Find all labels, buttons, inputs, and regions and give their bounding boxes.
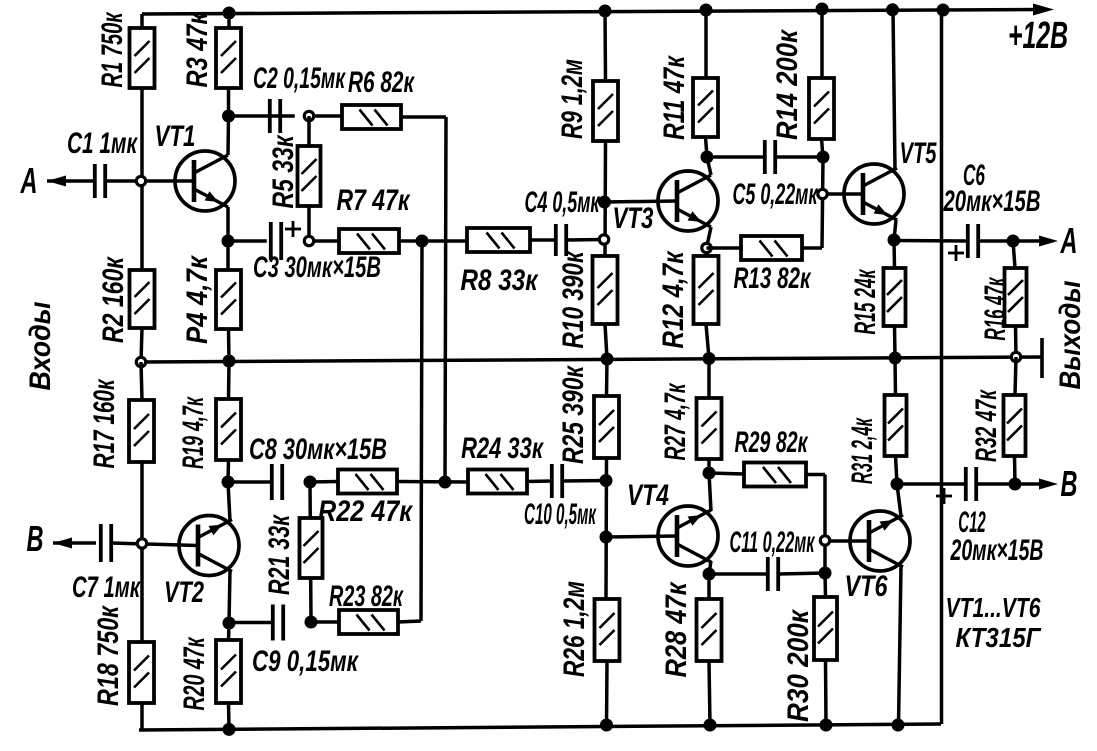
svg-text:R29 82к: R29 82к [735,426,809,459]
junction VT3 base [598,196,611,209]
wire R1 to R2 via input A node [140,88,144,270]
resistor R21 [300,518,323,578]
node C2 R5 R6 [304,111,313,120]
wire R1 top [140,14,144,28]
svg-text:R32 47к: R32 47к [970,389,1003,462]
svg-text:А: А [1060,221,1078,261]
resistor R27 [697,398,722,459]
transistor VT1 [175,151,235,211]
svg-text:C1 1мк: C1 1мк [67,127,139,160]
junction VT1 emitter [222,235,235,248]
resistor R13 [741,236,802,260]
wire R19 to emitter node [226,460,230,482]
svg-text:VT6: VT6 [845,569,889,602]
svg-text:R13 82к: R13 82к [734,262,813,295]
junction output A R16 [1007,235,1020,248]
wire VT1 emitter [226,207,230,241]
wire R2 to mid rail [141,328,142,362]
capacitor C9 [273,605,283,641]
resistor Р4 [216,270,241,329]
wire R19 top [227,361,231,399]
wire +12V top rail [142,10,1046,15]
svg-text:C7 1мк: C7 1мк [72,571,141,604]
node VT3 emitter [702,243,711,252]
junction C5 R14 base link [817,151,830,164]
wire R22 to R24 [397,480,468,484]
wire R4 to mid rail [227,329,231,361]
svg-text:+12В: +12В [1008,14,1068,57]
wire R7 to R8 [399,239,467,243]
wire R8 to C4 [530,238,556,242]
wire base VT5 [827,192,862,196]
wire C5 to R14 node [775,155,823,159]
wire R27 to emitter node [707,459,711,473]
wire base VT2 [147,544,197,546]
wire C5 node to VT5 base to R13 [822,157,823,248]
svg-text:R6 82к: R6 82к [348,66,416,99]
wire emitter to C6 [894,239,968,243]
wire R9 to R10 [603,141,607,256]
resistor R2 [130,270,155,328]
wire R9 top [603,11,607,81]
svg-text:R12 4,7к: R12 4,7к [655,250,689,348]
transistor VT5 [844,164,904,224]
resistor R7 [339,229,399,253]
node outputs common [1011,352,1020,361]
resistor R23 [339,610,398,634]
junction output B R32 [1009,478,1022,491]
arrow input A [47,176,66,187]
svg-text:В: В [26,519,43,559]
wire R23 to feedback [398,621,421,622]
arrow +12V rail end [1033,4,1054,16]
svg-text:R2 160к: R2 160к [96,256,130,343]
svg-text:А: А [20,161,38,201]
wire node to R7 [313,239,339,243]
junction R30 bottom rail [820,719,833,732]
wire R28 to bottom rail [709,661,710,725]
svg-text:C9 0,15мк: C9 0,15мк [252,644,359,678]
svg-text:20мк×15В: 20мк×15В [943,185,1041,218]
wire VT2 collector down [229,570,230,623]
wire R31 to emitter node [896,456,898,484]
junction R26 bottom rail [600,719,613,732]
wire collector node to R28 [707,574,711,599]
wire R13 to VT5 base link [802,246,822,250]
wire R26 to bottom rail [605,661,609,725]
svg-text:R27 4,7к: R27 4,7к [659,383,692,461]
resistor R6 [342,105,401,129]
wire input B [53,541,96,545]
junction VT1 collector [222,110,235,123]
svg-text:R18 750к: R18 750к [91,605,125,706]
wire R15 [892,240,896,268]
svg-text:Входы: Входы [24,301,58,390]
node mid rail left inputs common [136,357,145,366]
svg-text:R21 33к: R21 33к [261,514,296,595]
node C3 R5 R7 [304,236,313,245]
junction R22 R24 feedback [439,476,452,489]
wire collector to C9 [229,621,273,625]
svg-text:C5 0,22мк: C5 0,22мк [733,179,819,212]
svg-text:R24 33к: R24 33к [461,431,544,465]
node C4 connection [599,235,608,244]
wire R16 top [1013,241,1015,268]
wire base VT1 [146,179,193,183]
node VT5 base [818,189,827,198]
wire feedback R7 to R23 [421,241,422,621]
svg-text:R25 390к: R25 390к [556,365,590,464]
wire input A [47,179,95,183]
wire VT2 emitter up [228,482,230,521]
svg-text:R1 750к: R1 750к [96,12,129,88]
wire R3 top [227,13,231,28]
wire R17 to input B node to R18 [140,462,144,642]
node VT6 base [820,536,829,545]
wire base VT3 [605,201,677,202]
svg-text:VT3: VT3 [613,201,654,235]
svg-text:VT5: VT5 [900,137,938,170]
resistor R18 [129,642,154,703]
junction R7 R8 feedback [416,235,429,248]
wire node to R22 [310,480,338,484]
resistor R32 [1004,395,1026,456]
svg-text:R28 47к: R28 47к [659,581,692,678]
junction VT5 emitter R15 [888,234,901,247]
wire emitter to C3 [228,239,267,243]
wire collector node to R20 [227,623,231,640]
terminal bar outputs common [1040,338,1044,378]
svg-text:R23 82к: R23 82к [329,580,404,613]
resistor R20 [216,640,241,703]
svg-text:В: В [1060,464,1077,504]
node input B junction [137,539,146,548]
wire emitter to C8 [228,480,272,484]
wire R18 to bottom rail [140,703,144,730]
junction C11 R30 base link [819,567,832,580]
resistor R25 [594,396,619,458]
resistor R15 [884,268,906,326]
svg-text:C8 30мк×15В: C8 30мк×15В [249,432,387,466]
svg-text:Р4 4,7к: Р4 4,7к [180,254,213,344]
svg-text:R9 1,2м: R9 1,2м [554,59,588,139]
resistor R22 [338,470,397,494]
wire R12 to mid rail [706,324,709,359]
capacitor C8 [272,464,282,500]
capacitor C3 [271,221,301,260]
capacitor C1 [95,164,105,198]
wire bottom rail [139,724,941,730]
junction VT6 emitter R31 [891,478,904,491]
transistor VT4 [658,506,718,566]
svg-text:C10 0,5мк: C10 0,5мк [524,497,597,531]
wire R20 to bottom rail [227,703,231,729]
junction VT6 collector rail [892,719,905,732]
svg-text:VT4: VT4 [627,478,669,512]
svg-text:20мк×15В: 20мк×15В [950,534,1044,567]
wire mid rail to R17 [141,362,142,400]
svg-text:R30 200к: R30 200к [781,608,814,722]
wire VT5 collector [893,10,895,169]
wire R4 top [226,241,230,270]
resistor R9 [593,81,618,141]
svg-text:R26 1,2м: R26 1,2м [557,581,591,677]
wire R14 to C5 node [822,139,824,157]
resistor R14 [809,78,834,139]
wire collector VT3 to C5 [707,155,765,159]
transistor VT3 [658,171,718,231]
wire C12 to output B [976,482,1040,486]
junction R15 mid rail [889,352,902,365]
wire R30 top [823,573,827,597]
junction R3 top rail [223,7,236,20]
wire R25 to nodes to R26 [604,458,608,599]
wire collector VT4 to C11 [709,572,768,576]
resistor R10 [593,256,618,324]
junction R4 R19 mid rail [223,355,236,368]
resistor R16 [1005,268,1027,326]
svg-text:R5 33к: R5 33к [266,134,300,208]
wire R25 top [605,359,609,396]
junction R10 R25 mid rail [601,353,614,366]
svg-text:КТ315Г: КТ315Г [956,621,1042,653]
svg-text:Выходы: Выходы [1053,280,1086,389]
junction R14 top rail [816,3,829,16]
wire R29 to VT6 base link [806,475,825,574]
wire C1 to base node [105,179,146,183]
node input A junction [136,176,145,185]
resistor R30 [814,597,837,660]
svg-text:C11 0,22мк: C11 0,22мк [730,526,816,560]
wire C4 to VT3 base column [566,238,604,242]
wire VT3 emitter [707,227,712,248]
junction R12 R27 mid rail [703,352,716,365]
wire R12 top [704,252,708,256]
transistor VT6 [850,511,910,571]
junction R9 top rail [599,5,612,18]
svg-text:R7 47к: R7 47к [337,183,411,217]
arrow input B [53,538,72,549]
junction C8 R21 R22 [304,476,317,489]
wire collector to C2 [229,114,295,118]
wire VT5 emitter [894,220,896,240]
svg-text:R31 2,4к: R31 2,4к [846,417,879,484]
wire VT6 collector down [899,566,902,725]
svg-text:R17 160к: R17 160к [88,378,121,469]
wire R3 to collector node [227,88,231,116]
resistor R31 [885,395,907,456]
wire C6 to output A [978,239,1040,243]
junction C10 node [600,474,613,487]
wire node to R6 [313,114,342,118]
resistor R28 [697,599,722,661]
svg-text:R11 47к: R11 47к [657,55,691,140]
wire VT3 emitter to R13 [707,246,742,250]
junction VT2 collector C9 [223,617,236,630]
resistor R3 [216,28,241,88]
junction VT4 emitter R29 [703,467,716,480]
capacitor C11 [768,557,778,591]
wire VT1 collector [226,116,230,155]
junction VT4 collector C11 [703,568,716,581]
junction VT4 base [600,531,613,544]
junction R11 top rail [700,4,713,17]
svg-text:R8 33к: R8 33к [461,262,539,296]
resistor R29 [744,463,806,487]
wire R32 top [1015,357,1016,395]
wire right vertical +12V link [940,10,944,724]
capacitor C10 [552,464,562,498]
wire base VT6 [830,539,868,543]
wire R14 top [820,9,824,78]
wire VT6 emitter up [897,484,901,516]
wire R24 to C10 [527,479,552,483]
arrow output A [1039,236,1058,247]
capacitor C12 [936,467,976,504]
wire middle common rail [141,357,1042,362]
resistor R17 [129,400,154,462]
wire VT4 emitter up [709,473,711,511]
wire R6 to feedback down [401,117,446,482]
svg-text:R20 47к: R20 47к [178,637,211,711]
resistor R8 [467,228,530,252]
arrow output B [1039,479,1058,490]
resistor R5 [298,146,321,206]
resistor R26 [595,599,620,661]
wire VT3 collector [707,157,711,175]
junction VT2 emitter C8 [222,476,235,489]
wire emitter to R29 [709,473,744,474]
resistor R24 [468,470,527,494]
transistor VT2 [179,516,239,576]
svg-text:R19 4,7к: R19 4,7к [178,396,211,469]
capacitor C6 [948,224,978,261]
svg-text:VT1: VT1 [155,119,196,153]
wire R15 to mid rail [893,326,897,358]
wire R30 to bottom rail [824,660,828,725]
svg-text:R3 47к: R3 47к [180,11,213,87]
wire node to R23 [311,620,339,624]
capacitor C2 [270,99,280,133]
svg-text:R22 47к: R22 47к [318,494,414,528]
svg-text:VT2: VT2 [164,575,204,609]
svg-text:R10 390к: R10 390к [556,250,590,348]
wire R11 to collector node [706,137,708,157]
svg-text:C2 0,15мк: C2 0,15мк [253,62,346,95]
junction VT3 collector C5 [701,151,714,164]
wire C7 to base node [111,543,147,544]
resistor R11 [693,78,718,137]
svg-text:R14 200к: R14 200к [770,28,803,140]
junction R20 bottom rail [223,723,236,736]
wire R31 top [893,358,897,395]
wire emitter to C12 [897,482,966,486]
wire R27 top [707,359,711,399]
junction VT5 collector rail [886,3,899,16]
wire base VT4 [606,536,676,537]
wire R5 [307,116,311,241]
junction right vertical top rail [937,4,950,17]
wire R32 to output node [1013,456,1017,484]
wire C11 to R30 node [778,573,825,574]
svg-text:C3 30мк×15В: C3 30мк×15В [253,251,381,284]
capacitor C4 [556,224,566,256]
junction C9 R21 R23 [305,616,318,629]
svg-text:VT1...VT6: VT1...VT6 [946,593,1041,623]
svg-text:R15 24к: R15 24к [849,268,882,334]
svg-text:C4 0,5мк: C4 0,5мк [525,186,601,219]
wire R11 top [704,10,708,78]
resistor R12 [694,256,719,324]
wire R21 [310,482,311,622]
capacitor C7 [101,524,111,562]
svg-text:R16 47к: R16 47к [979,276,1012,340]
resistor R1 [130,28,155,88]
capacitor C5 [765,140,775,174]
junction R28 bottom rail [704,719,717,732]
resistor R19 [216,399,241,460]
wire C10 to node [562,479,606,483]
wire R16 to mid rail [1014,326,1018,357]
wire R10 to mid rail [605,324,607,359]
wire VT4 collector down [709,561,711,574]
